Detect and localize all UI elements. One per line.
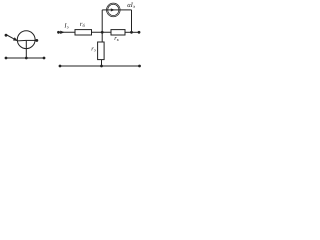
node: base terminal dot [35, 39, 38, 42]
resistor r_b box [75, 30, 92, 35]
node: bottom rail right dot [138, 65, 141, 68]
svg-text:Iэ: Iэ [63, 23, 68, 30]
wire: r_e bottom lead [101, 60, 103, 66]
input current arrow [60, 31, 64, 34]
current source internal line [107, 9, 120, 11]
resistor r_e box [98, 42, 105, 60]
wire: top branch left stub [102, 9, 106, 11]
emitter wire [6, 35, 26, 41]
emitter arrowhead of Q1 [13, 37, 18, 41]
wire: node A up to current source [101, 10, 103, 32]
node: emitter terminal dot [5, 34, 8, 37]
node A junction dot [101, 31, 104, 34]
wire: r_c to output [125, 31, 140, 33]
wire: right vertical down [131, 10, 133, 32]
node: bottom rail left dot [59, 65, 62, 68]
wire: left bottom rail [6, 57, 44, 59]
node: output terminal dot [138, 31, 141, 34]
wire: node A down to r_e [101, 32, 103, 42]
svg-text:rб: rб [80, 21, 86, 28]
current source U1 outer circle [107, 3, 121, 17]
wire: top branch right stub [120, 9, 132, 11]
node: bottom rail junction dot [100, 65, 103, 68]
current source arrow [111, 8, 115, 11]
current source U1 inner circle [108, 4, 119, 15]
node: input terminal dot [57, 31, 60, 34]
node: left rail left dot [5, 57, 8, 60]
svg-text:rэ: rэ [91, 45, 96, 52]
node B junction dot [130, 31, 133, 34]
wire: r_b to node A [92, 31, 112, 33]
wire: right bottom rail [60, 65, 140, 67]
svg-text:rк: rк [114, 35, 120, 42]
resistor r_c box [111, 30, 125, 35]
wire: input lead [59, 31, 76, 33]
base wire [26, 39, 37, 41]
svg-text:αIэ: αIэ [127, 2, 135, 10]
collector wire [25, 40, 27, 58]
transistor Q1 body circle [17, 31, 35, 49]
node: left rail junction dot [25, 57, 28, 60]
node: left rail right dot [43, 57, 46, 60]
